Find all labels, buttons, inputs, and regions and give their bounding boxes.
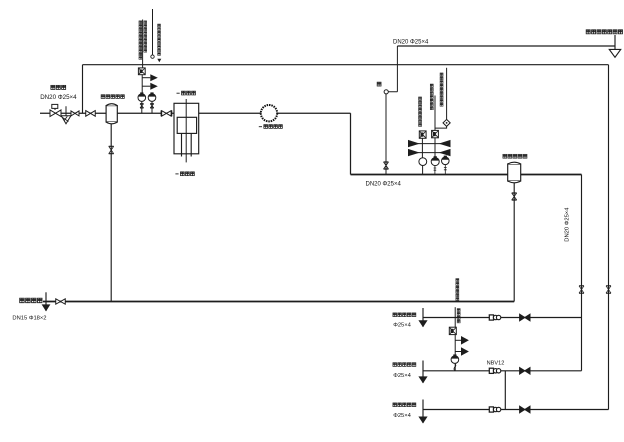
label: branch2 vertical spec [430,84,433,110]
wire: right riser from bottom header [581,175,583,371]
wire: stub start arrow [422,400,424,424]
wire: separator drain [513,182,515,302]
wire: bottom header [351,174,582,176]
instrument FA1 flame arrestor box [138,68,145,75]
gauge PG4 on branch2 [431,156,439,174]
wire: pilot sensing drop [446,68,448,120]
wire: pilot link to branch2 [435,126,447,128]
valve on far right bypass riser [606,286,611,293]
wire: regulator branch 1 riser below pilot [421,138,423,158]
wire: small branch riser [454,307,456,371]
wire: top header line [83,64,609,66]
vessel E1 inner core [177,117,196,133]
wire: consumer stub 1 [423,317,582,319]
wire: stub start arrow [422,308,424,327]
label: pilot line vertical spec [440,73,443,106]
label: branch1 vertical spec [419,97,422,126]
vessel T1 pressure stabilizing filter [106,104,117,124]
wire: safety discharge header [397,45,615,47]
label: exchanger bottom [175,172,194,176]
fitting hose connector [489,368,501,373]
label: flow meter [259,125,283,129]
svg-text:Φ25×4: Φ25×4 [393,322,411,328]
wire: stub start arrow [422,361,424,383]
vessel E1 exchanger outer shell [174,103,199,154]
label: vertical note col 1 [139,21,142,59]
svg-text:DN20 Φ25×4: DN20 Φ25×4 [393,39,429,45]
svg-text:DN20 Φ25×4: DN20 Φ25×4 [366,182,402,188]
label: inlet medium name [51,85,66,89]
svg-text:DN20 Φ25×4: DN20 Φ25×4 [565,207,571,242]
wire: exchanger center line [185,99,187,162]
relief valve RV1 [384,46,397,94]
wire: consumer stub 3 [423,409,609,411]
label: drain collection note [20,298,42,302]
instrument pilot diamond [443,119,450,126]
wire: vent pipe rising from flame arrestor [142,20,144,69]
node: diamond center dot [446,122,448,124]
instrument small pilot box [449,327,456,334]
wire: small branch squiggle to stub2 [454,363,456,370]
svg-text:DN15 Φ18×2: DN15 Φ18×2 [12,316,46,322]
valve on relief riser [384,162,389,169]
label: relief valve tag [377,82,381,86]
wire: bypass drop at left [82,65,84,114]
wire: stub2-stub3 connector [504,371,506,410]
strainer F1 cone filter [61,106,71,124]
wire: arrestor outlet branch 2 [142,83,158,90]
label: vertical note col 2 [144,21,147,52]
wire: elbow main to bottom header [350,113,352,174]
wire: filter vessel drain [110,124,112,302]
fitting hose connector [489,407,501,412]
valve on separator drain [512,193,517,200]
svg-text:Φ25×4: Φ25×4 [393,413,411,419]
wire: drain collection line [43,301,514,303]
label: vertical note col 3 with pointer [157,24,161,62]
valve V2 inlet block valve [86,111,96,117]
meter FE1 flow element [261,105,277,121]
wire: small branch outlet arrow 2 [455,347,469,356]
label: exchanger top [177,91,196,95]
wire: consumer stub 2 [423,370,582,372]
svg-text:Φ25×4: Φ25×4 [393,373,411,379]
wire: arrestor down leg [141,75,143,94]
wire: drain end arrow [45,292,47,311]
instrument regulator pilot box 1 [419,131,426,138]
wire: small branch outlet arrow 1 [455,336,469,345]
valve on right riser [579,286,584,293]
valve regulator body row 2 [408,149,451,156]
gauge PG1 [138,94,146,102]
gauge PG3 on branch1 [419,158,427,175]
instrument regulator pilot box 2 [432,130,439,137]
vessel S1 gas-liquid separator [508,162,521,183]
label: consumer stub text [393,313,416,317]
label: safety header note [586,30,622,34]
fitting hose connector [489,315,501,320]
label: small branch vertical note lower [457,309,460,323]
svg-text:NBV12: NBV12 [487,360,505,366]
wire: relief riser [385,94,387,175]
valve stub block valve [520,314,530,321]
wire: safety vent arrow [609,35,620,57]
valve V1 inlet globe valve with handwheel [50,104,61,116]
valve regulator body row 1 [408,140,451,147]
valve on filter vessel drain [109,146,114,153]
label: consumer stub text [393,403,416,407]
fitting union on inlet [71,111,79,116]
label: small branch vertical note upper [456,279,459,301]
gauge PG6 on small branch [451,356,459,364]
wire: far right bypass riser [608,65,610,410]
gauge PG2 [148,94,156,102]
valve stub block valve [520,368,530,375]
vessel E1 lower tubes [182,133,192,156]
label: separator name [503,154,527,158]
wire: regulator branch 2 riser [434,96,436,158]
wire: arrestor outlet branch 1 [142,74,158,81]
svg-text:DN20 Φ25×4: DN20 Φ25×4 [40,94,77,101]
wire: main inlet line [40,112,351,114]
label: vessel T1 name [101,95,124,99]
valve small under PG1 [141,101,143,113]
wire: sample line with end circle [151,9,154,58]
gauge PG5 off bottom header [442,156,450,175]
valve on drain line [56,299,66,304]
valve V3 before exchanger [161,110,172,116]
label: consumer stub text [393,363,416,367]
valve stub block valve [520,406,530,413]
valve small under PG2 [151,101,153,113]
